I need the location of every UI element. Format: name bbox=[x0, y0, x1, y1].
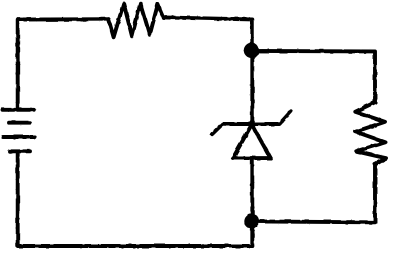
resistor R1 (series, horizontal zigzag) bbox=[109, 3, 164, 37]
resistor R2 (load, vertical zigzag) bbox=[355, 102, 386, 164]
battery B1 plate 1 (long, +) bbox=[3, 108, 34, 112]
battery B1 plate 2 (short) bbox=[9, 121, 30, 125]
wire top-left (battery + to series resistor) bbox=[18, 19, 109, 107]
wire zener anode to node B and bottom rail bbox=[250, 158, 254, 246]
zener diode D1 anode triangle bbox=[233, 124, 271, 158]
battery B1 plate 3 (long) bbox=[3, 135, 35, 139]
node A (top junction dot) bbox=[244, 43, 259, 58]
zener diode D1 cathode bar with bent tails bbox=[212, 111, 291, 134]
node B (bottom junction dot) bbox=[244, 213, 259, 228]
wire bottom rail (node B to battery -) bbox=[18, 153, 253, 247]
wire top-right of R1 to node A bbox=[163, 17, 252, 121]
wire node A to load branch top bbox=[251, 51, 375, 102]
battery B1 plate 4 (short, -) bbox=[10, 149, 31, 153]
wire load branch bottom to node B bbox=[251, 165, 375, 223]
